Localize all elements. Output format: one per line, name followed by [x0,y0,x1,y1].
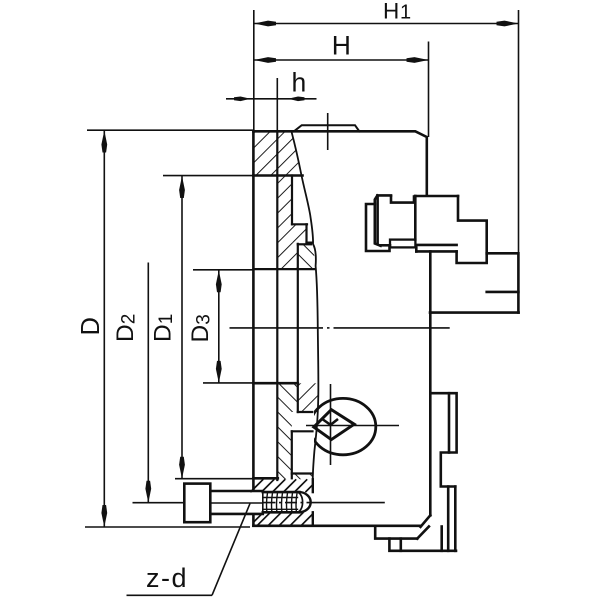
svg-text:1: 1 [400,2,411,24]
svg-text:z-d: z-d [146,563,188,593]
svg-text:H: H [332,30,351,60]
svg-text:H: H [383,0,399,24]
svg-text:D: D [77,317,105,335]
svg-text:h: h [292,68,307,98]
